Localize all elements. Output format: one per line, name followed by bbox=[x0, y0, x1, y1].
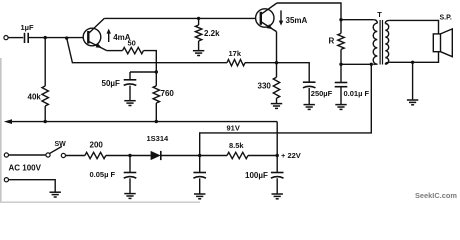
capacitor 0.01uF bbox=[335, 82, 348, 84]
node rectifier out bbox=[198, 154, 201, 157]
ground bbox=[335, 104, 346, 106]
wire bbox=[248, 155, 277, 157]
svg-text:T: T bbox=[377, 10, 382, 19]
resistor 8.5k bbox=[227, 152, 248, 158]
svg-text:2.2k: 2.2k bbox=[204, 29, 220, 38]
svg-text:S.P.: S.P. bbox=[440, 14, 452, 21]
wire bbox=[308, 88, 310, 104]
wire bbox=[10, 121, 278, 123]
svg-text:AC 100V: AC 100V bbox=[9, 164, 42, 173]
capacitor 1uF bbox=[24, 33, 26, 43]
svg-text:200: 200 bbox=[90, 141, 104, 150]
ground bbox=[193, 50, 204, 52]
svg-text:1µF: 1µF bbox=[21, 23, 34, 32]
wire bbox=[8, 37, 23, 39]
wire bbox=[340, 20, 342, 34]
speaker S.P. bbox=[433, 34, 440, 52]
svg-text:330: 330 bbox=[258, 81, 272, 90]
ground bbox=[50, 191, 61, 193]
svg-text:1S314: 1S314 bbox=[147, 134, 170, 143]
current label 35mA bbox=[280, 10, 282, 22]
node secondary ground tap bbox=[411, 61, 414, 64]
wire bbox=[155, 103, 157, 122]
svg-text:+ 22V: + 22V bbox=[281, 151, 301, 160]
wire bbox=[276, 63, 278, 77]
node 0.05uF junction bbox=[128, 154, 131, 157]
wire bbox=[129, 72, 131, 79]
resistor 2.2k bbox=[195, 25, 201, 41]
svg-text:SeekIC.com: SeekIC.com bbox=[415, 191, 457, 200]
wire bbox=[412, 62, 414, 99]
wire bbox=[199, 156, 201, 173]
AC terminal lower bbox=[4, 178, 8, 182]
wire bbox=[198, 41, 200, 50]
wire bbox=[389, 20, 438, 34]
node R bottom bbox=[339, 63, 342, 66]
transformer T primary bbox=[373, 20, 377, 64]
wire bbox=[340, 49, 342, 64]
capacitor filter bbox=[193, 172, 206, 174]
resistor 40k bbox=[42, 86, 48, 106]
node emitter bypass bbox=[155, 70, 158, 73]
wire bbox=[104, 17, 255, 19]
ground bbox=[304, 104, 315, 106]
ground bbox=[194, 193, 205, 195]
resistor R bbox=[338, 33, 344, 49]
wire bbox=[276, 98, 278, 103]
svg-text:50µF: 50µF bbox=[102, 79, 121, 88]
node primary bottom bbox=[370, 63, 373, 66]
wire bbox=[161, 155, 227, 157]
wire bbox=[66, 155, 85, 157]
wire bbox=[106, 155, 151, 157]
arrow to supply bbox=[4, 119, 12, 124]
svg-text:250µF: 250µF bbox=[311, 89, 333, 98]
svg-text:35mA: 35mA bbox=[286, 16, 308, 25]
input terminal bbox=[4, 36, 8, 40]
wire bbox=[341, 19, 373, 21]
node 40k junction bbox=[44, 120, 47, 123]
wire bbox=[276, 178, 278, 193]
svg-text:0.01µ F: 0.01µ F bbox=[344, 89, 370, 98]
wire bbox=[130, 71, 156, 73]
wire bbox=[67, 38, 227, 63]
wire bbox=[198, 18, 200, 25]
svg-text:50: 50 bbox=[128, 39, 136, 48]
wire bbox=[277, 3, 341, 20]
node emitter Q2 bbox=[275, 61, 278, 64]
diode 1S314 bbox=[151, 151, 161, 160]
wire bbox=[129, 178, 131, 193]
svg-text:0.05µ F: 0.05µ F bbox=[90, 170, 116, 179]
wire bbox=[277, 63, 310, 82]
svg-text:8.5k: 8.5k bbox=[229, 141, 244, 150]
wire bbox=[28, 37, 83, 39]
wire bbox=[340, 87, 342, 105]
ground bbox=[407, 99, 418, 101]
svg-text:760: 760 bbox=[161, 89, 175, 98]
wire bbox=[9, 154, 46, 156]
wire bbox=[129, 156, 131, 173]
wire bbox=[129, 86, 131, 101]
wire bbox=[199, 178, 201, 193]
wire bbox=[9, 180, 56, 192]
wire bbox=[44, 38, 46, 86]
ground bbox=[124, 193, 135, 195]
wire bbox=[155, 72, 157, 86]
wire bbox=[144, 51, 157, 72]
node 760 to supply line bbox=[155, 120, 158, 123]
wire bbox=[200, 64, 372, 155]
svg-text:40k: 40k bbox=[28, 93, 42, 102]
svg-text:R: R bbox=[329, 37, 335, 46]
node +22V bbox=[276, 154, 279, 157]
wire bbox=[44, 106, 46, 122]
resistor 330 bbox=[273, 77, 279, 98]
resistor 200 bbox=[85, 152, 106, 158]
transformer core bbox=[379, 20, 381, 65]
wire bbox=[276, 122, 278, 156]
transistor Q2 bbox=[256, 9, 274, 27]
current label 4mA bbox=[108, 32, 110, 42]
AC terminal upper bbox=[4, 153, 8, 157]
wire bbox=[276, 32, 278, 63]
svg-text:100µF: 100µF bbox=[245, 171, 268, 180]
wire bbox=[276, 156, 278, 173]
wire bbox=[245, 62, 277, 64]
wire bbox=[107, 50, 123, 52]
node feedback tap bbox=[65, 36, 68, 39]
ground bbox=[271, 103, 282, 105]
wire bbox=[341, 63, 371, 65]
capacitor 0.05uF bbox=[124, 172, 137, 174]
wire bbox=[340, 64, 342, 82]
svg-text:17k: 17k bbox=[229, 49, 242, 58]
switch SW bbox=[46, 153, 50, 157]
wire bbox=[389, 52, 438, 63]
ground bbox=[272, 193, 283, 195]
node base-Q1 bias bbox=[44, 36, 47, 39]
capacitor 250uF bbox=[303, 81, 316, 83]
resistor 760 bbox=[153, 86, 159, 103]
svg-text:SW: SW bbox=[55, 141, 67, 148]
resistor 50 bbox=[123, 47, 144, 53]
resistor 17k bbox=[227, 60, 245, 66]
capacitor 50uF bbox=[124, 79, 137, 81]
node R top bbox=[339, 18, 342, 21]
node collector Q1 / 2.2k bbox=[197, 17, 200, 20]
transformer T secondary bbox=[385, 20, 389, 64]
ground bbox=[124, 100, 135, 102]
svg-text:91V: 91V bbox=[227, 124, 240, 133]
transistor Q1 bbox=[83, 28, 101, 46]
capacitor 100uF bbox=[271, 172, 284, 174]
